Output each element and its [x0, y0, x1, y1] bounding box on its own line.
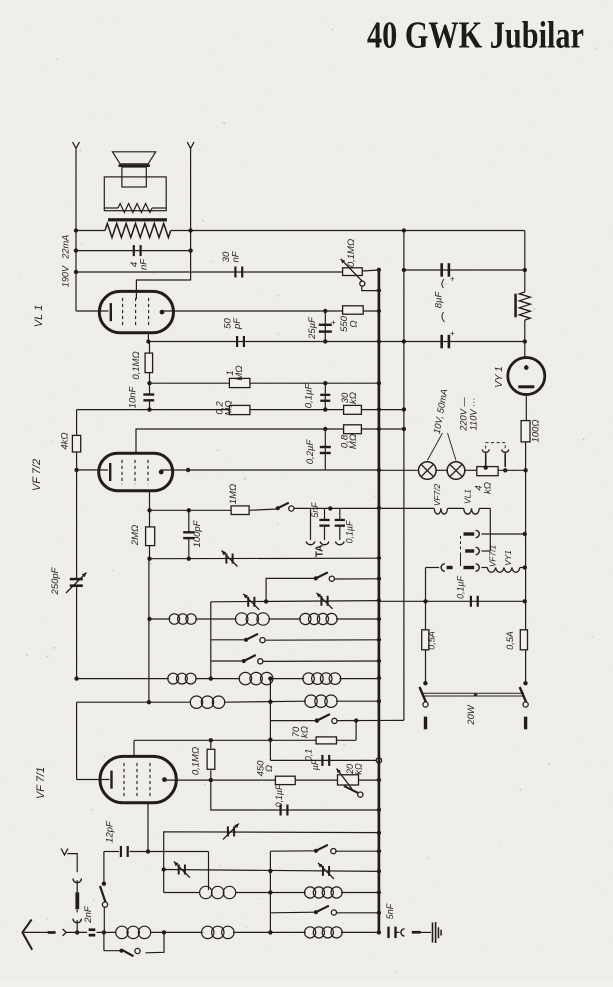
svg-text:VY1: VY1	[503, 550, 513, 566]
svg-text:0,1MΩ: 0,1MΩ	[346, 239, 357, 267]
svg-text:110V ···: 110V ···	[469, 398, 479, 431]
svg-text:VL 1: VL 1	[33, 305, 45, 327]
svg-text:VF7/1: VF7/1	[488, 545, 498, 567]
svg-text:+: +	[450, 275, 455, 284]
svg-text:0,1: 0,1	[304, 749, 314, 761]
svg-text:25µF: 25µF	[307, 316, 318, 340]
svg-text:12pF: 12pF	[105, 820, 116, 843]
svg-text:190V 22mA: 190V 22mA	[61, 235, 71, 288]
svg-text:MΩ: MΩ	[224, 400, 235, 415]
svg-text:0,1MΩ: 0,1MΩ	[131, 351, 142, 379]
svg-text:0,5A: 0,5A	[505, 631, 515, 650]
svg-text:kΩ: kΩ	[300, 726, 311, 738]
svg-text:kΩ: kΩ	[348, 392, 359, 404]
svg-text:0,2µF: 0,2µF	[305, 439, 316, 465]
svg-text:pF: pF	[232, 317, 243, 330]
svg-text:250pF: 250pF	[50, 566, 61, 595]
svg-text:0,1µF: 0,1µF	[456, 576, 466, 599]
svg-text:nF: nF	[139, 258, 150, 270]
svg-text:µF: µF	[310, 759, 320, 770]
svg-text:5nF: 5nF	[310, 502, 320, 518]
svg-text:kΩ: kΩ	[483, 482, 494, 494]
svg-text:nF: nF	[231, 250, 242, 262]
svg-text:VF 7/2: VF 7/2	[31, 459, 43, 491]
svg-text:20W: 20W	[466, 704, 477, 726]
svg-text:100Ω: 100Ω	[531, 419, 542, 442]
svg-text:+: +	[450, 329, 455, 338]
svg-text:VL1: VL1	[463, 489, 473, 504]
svg-text:2MΩ: 2MΩ	[130, 525, 141, 546]
svg-text:+: +	[331, 318, 336, 327]
svg-text:220V —: 220V —	[459, 397, 469, 432]
svg-text:0,1µF: 0,1µF	[304, 383, 315, 409]
svg-text:VF 7/1: VF 7/1	[35, 767, 47, 799]
svg-text:0,1MΩ: 0,1MΩ	[191, 747, 202, 775]
svg-text:5nF: 5nF	[385, 903, 395, 919]
svg-text:MΩ: MΩ	[348, 434, 359, 449]
svg-text:MΩ: MΩ	[234, 365, 245, 380]
svg-text:0,5A: 0,5A	[427, 631, 437, 650]
svg-text:8µF: 8µF	[434, 291, 445, 309]
svg-text:kΩ: kΩ	[354, 763, 364, 775]
svg-text:4kΩ: 4kΩ	[60, 432, 71, 449]
svg-text:TA: TA	[315, 545, 326, 558]
svg-text:0,1µF: 0,1µF	[274, 784, 284, 807]
svg-text:40 GWK Jubilar: 40 GWK Jubilar	[367, 15, 584, 57]
svg-text:VF7/2: VF7/2	[432, 483, 442, 506]
svg-text:1MΩ: 1MΩ	[228, 484, 239, 504]
svg-text:100pF: 100pF	[192, 519, 203, 547]
svg-text:0,1µF: 0,1µF	[345, 520, 355, 543]
svg-text:10nF: 10nF	[128, 385, 139, 408]
svg-text:2nF: 2nF	[83, 905, 94, 924]
svg-text:Ω: Ω	[264, 765, 275, 772]
svg-text:VY 1: VY 1	[494, 366, 505, 388]
svg-text:Ω: Ω	[349, 320, 360, 327]
